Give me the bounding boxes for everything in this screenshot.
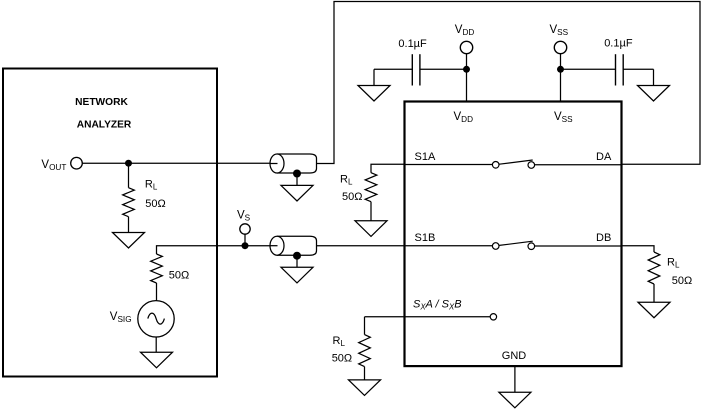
coax cable 2	[270, 236, 317, 255]
junction dot at VOUT / RL	[125, 160, 132, 167]
svg-text:DA: DA	[596, 151, 612, 163]
svg-text:S1B: S1B	[415, 232, 436, 244]
svg-text:0.1µF: 0.1µF	[398, 38, 427, 50]
capacitor C2 0.1uF	[561, 38, 654, 86]
resistor RL 50ohm (VOUT termination)	[123, 179, 166, 217]
switch A (S1A to DA)	[405, 160, 622, 168]
svg-text:GND: GND	[502, 350, 527, 362]
ground (DB termination)	[638, 302, 670, 318]
control line SxA/SxB	[365, 314, 497, 335]
terminal VDD	[455, 24, 475, 54]
ground (GND pin)	[499, 392, 531, 408]
wire coax1 to DA loop over the top	[317, 2, 701, 165]
ground (coax2 shield)	[281, 267, 313, 283]
wire coax2 shield to ground	[296, 256, 298, 267]
ground (S1A termination)	[355, 221, 387, 237]
wire VOUT to coax1	[82, 162, 272, 164]
terminal VSS	[550, 24, 569, 54]
ground (coax1 shield)	[281, 185, 313, 201]
svg-text:50Ω: 50Ω	[145, 198, 165, 210]
switch B (S1B to DB)	[405, 241, 622, 249]
svg-text:S1A: S1A	[415, 151, 436, 163]
svg-text:50Ω: 50Ω	[169, 270, 189, 282]
switch IC box	[405, 102, 622, 367]
wire down to RL	[128, 163, 130, 188]
ground (VOUT RL)	[113, 233, 145, 249]
wire to ground (DB term)	[653, 284, 655, 302]
junction dot VSS	[557, 66, 564, 73]
terminal VOUT	[41, 157, 82, 171]
svg-text:0.1µF: 0.1µF	[604, 38, 633, 50]
wire to ground (S1A term)	[370, 202, 372, 221]
coax cable 1	[270, 154, 317, 173]
svg-text:ANALYZER: ANALYZER	[77, 120, 132, 131]
wire resistor to VSIG	[156, 283, 158, 302]
ground (C1)	[358, 69, 390, 101]
svg-text:SXA / SXB: SXA / SXB	[413, 299, 462, 312]
resistor 50ohm (VSIG series)	[151, 254, 190, 283]
wire GND pin	[514, 366, 516, 392]
wire coax2 to S1B pin	[317, 245, 405, 247]
capacitor C1 0.1uF	[374, 38, 467, 86]
wire RL to ground	[128, 217, 130, 233]
wire coax1 shield to ground	[296, 174, 298, 186]
wire to ground (control term)	[364, 367, 366, 380]
wire VSIG to ground	[155, 337, 157, 352]
svg-text:50Ω: 50Ω	[332, 353, 352, 365]
node VS	[237, 210, 251, 250]
network analyzer box	[3, 69, 217, 377]
ground (VSIG)	[141, 352, 173, 368]
label NETWORK ANALYZER	[75, 97, 132, 131]
wire VSS terminal to box	[560, 54, 562, 102]
wire S1B row (VSIG to coax2)	[157, 246, 273, 254]
wire S1A termination	[371, 164, 405, 172]
svg-text:50Ω: 50Ω	[672, 275, 692, 287]
source VSIG	[110, 301, 174, 337]
wire DB termination	[622, 246, 655, 252]
junction dot VDD	[463, 66, 470, 73]
wire VDD terminal to box	[466, 54, 468, 102]
ground (control termination)	[349, 380, 381, 396]
svg-text:DB: DB	[596, 232, 611, 244]
svg-text:NETWORK: NETWORK	[75, 97, 128, 108]
svg-text:50Ω: 50Ω	[342, 191, 362, 203]
junction dot coax1 shield	[293, 170, 301, 178]
resistor RL 50ohm (DB termination)	[648, 252, 692, 287]
resistor RL 50ohm (control termination)	[332, 335, 371, 367]
resistor RL 50ohm (S1A termination)	[340, 173, 377, 203]
ground (C2)	[638, 69, 670, 101]
junction dot coax2 shield	[293, 252, 301, 260]
